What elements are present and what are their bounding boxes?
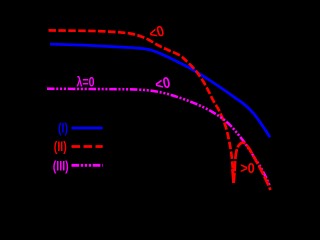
curve III (magenta dash-dot-dot) bbox=[47, 89, 270, 187]
svg-text:(III): (III) bbox=[53, 158, 69, 174]
legend entry II line (red dashed) bbox=[72, 145, 103, 148]
curve II descending branch (red dashed) bbox=[49, 30, 234, 183]
legend entry I line (blue solid) bbox=[72, 127, 103, 130]
curve II pole segment (red solid bottom dash) bbox=[232, 169, 233, 183]
svg-text:(II): (II) bbox=[54, 139, 67, 155]
svg-text:(I): (I) bbox=[58, 120, 68, 136]
legend entry III line (magenta dash-dot-dot) bbox=[72, 164, 103, 167]
svg-text:λ=0: λ=0 bbox=[77, 74, 95, 90]
curve I (blue solid) bbox=[50, 44, 270, 137]
svg-text:>0: >0 bbox=[240, 159, 255, 176]
plot background bbox=[0, 0, 274, 216]
curve II resurgent arch (red dashed) bbox=[234, 143, 271, 190]
